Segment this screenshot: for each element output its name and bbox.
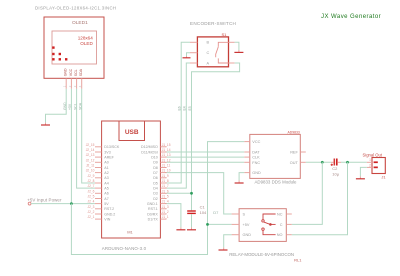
wire +5V input to Arduino 5V	[31, 203, 95, 205]
svg-text:J2_14: J2_14	[86, 148, 95, 152]
svg-text:D7: D7	[153, 171, 158, 175]
svg-text:D12/MISO: D12/MISO	[141, 145, 158, 149]
svg-text:VCC: VCC	[69, 68, 73, 76]
AD9833 right pin stubs REF OUT	[300, 152, 306, 162]
OLED pin numbers 1 2 3 4	[63, 85, 83, 87]
relay left pin stubs	[232, 214, 240, 235]
svg-text:128x64: 128x64	[78, 36, 94, 41]
svg-text:J2_2: J2_2	[87, 210, 94, 214]
svg-text:10µ: 10µ	[332, 171, 339, 176]
svg-text:D4: D4	[153, 186, 158, 190]
svg-text:D11/MOSI: D11/MOSI	[141, 150, 158, 154]
wire C2 to J1 pin1	[341, 161, 367, 163]
relay pin names	[243, 212, 252, 237]
svg-text:DISPLAY-OLED-128X64-I2C1.3INCH: DISPLAY-OLED-128X64-I2C1.3INCH	[35, 6, 116, 11]
Arduino left pin names	[104, 145, 120, 221]
capacitor C1	[187, 205, 207, 215]
svg-text:NC: NC	[277, 212, 283, 216]
ground symbol (J1 pin2)	[356, 176, 365, 178]
wire OLED GND to ground	[46, 89, 67, 123]
svg-text:USB: USB	[125, 129, 139, 136]
wire Arduino D10 to AD9833 CLK	[167, 156, 245, 158]
ground symbol (GND.1)	[176, 227, 185, 229]
relay module RL1 box	[239, 209, 286, 242]
svg-text:GND: GND	[243, 233, 252, 237]
svg-text:2: 2	[369, 163, 371, 167]
junction +5V relay	[206, 223, 209, 226]
svg-text:A5: A5	[104, 186, 108, 190]
svg-text:D3: D3	[153, 192, 158, 196]
svg-text:J2_8: J2_8	[87, 179, 94, 183]
svg-text:J1_11: J1_11	[162, 164, 171, 168]
AD9833 DDS module box	[250, 131, 300, 179]
svg-text:D0/RX: D0/RX	[147, 212, 158, 216]
svg-text:C: C	[207, 51, 210, 55]
svg-text:J2_3: J2_3	[87, 205, 94, 209]
svg-text:J1_1: J1_1	[162, 215, 169, 219]
relay contact graphic	[262, 214, 276, 235]
svg-text:A0: A0	[104, 161, 108, 165]
ground symbol (AD9833)	[235, 180, 244, 183]
wire +5V junction to relay +5V pin	[208, 223, 232, 225]
svg-text:E5: E5	[188, 106, 192, 110]
svg-text:D1/TX: D1/TX	[148, 217, 159, 221]
net labels GND +5V SCL SDA (rotated)	[63, 102, 83, 110]
svg-text:1: 1	[369, 158, 371, 162]
svg-text:J1_5: J1_5	[162, 195, 169, 199]
svg-text:C1: C1	[200, 205, 206, 210]
svg-text:A6: A6	[104, 192, 108, 196]
svg-text:J1_9: J1_9	[162, 174, 169, 178]
svg-text:A2: A2	[104, 171, 108, 175]
svg-text:J2_1: J2_1	[87, 215, 94, 219]
wire OLED SCL to Arduino A5	[77, 89, 95, 188]
encoder switch S1 box	[197, 32, 228, 67]
J1 pin numbers 1 2	[369, 158, 371, 167]
ground symbol (relay GND)	[219, 248, 228, 250]
wire S1 right-top pin to ground	[235, 42, 239, 50]
OLED pin stubs	[66, 78, 82, 89]
wire OLED VCC (+5V) down to 5V junction	[70, 89, 72, 204]
svg-text:RL1: RL1	[294, 257, 302, 262]
svg-text:J1_10: J1_10	[162, 169, 171, 173]
svg-text:J1_6: J1_6	[162, 189, 169, 193]
svg-text:J2_5: J2_5	[87, 195, 94, 199]
svg-text:ENCODER-SWITCH: ENCODER-SWITCH	[190, 21, 236, 26]
wire S1 A to Arduino D4	[167, 63, 191, 188]
svg-text:A1: A1	[104, 166, 108, 170]
ground symbol (C1)	[187, 227, 196, 229]
S1 pin stubs left	[190, 42, 197, 63]
svg-text:J2_10: J2_10	[86, 169, 95, 173]
svg-text:J2_13: J2_13	[86, 153, 95, 157]
svg-text:D2: D2	[153, 197, 158, 201]
ground symbol (S1 right)	[234, 50, 243, 52]
svg-text:Signal Out: Signal Out	[363, 152, 383, 157]
svg-text:J2_7: J2_7	[87, 184, 94, 188]
OLED pin names GND VCC SCL SDA (rotated)	[64, 68, 84, 76]
svg-text:OLED: OLED	[80, 41, 93, 46]
svg-text:AD9833: AD9833	[288, 131, 300, 135]
svg-text:GND.1: GND.1	[147, 202, 158, 206]
svg-text:J1_4: J1_4	[162, 200, 169, 204]
svg-text:D13/SCK: D13/SCK	[104, 145, 120, 149]
svg-text:AD9833 DDS Module: AD9833 DDS Module	[255, 180, 298, 185]
svg-text:GND.2: GND.2	[104, 212, 115, 216]
svg-text:J2_11: J2_11	[86, 164, 95, 168]
Arduino Nano M1 box	[102, 121, 161, 238]
S1 pin stubs right	[229, 42, 235, 63]
svg-text:FNC: FNC	[252, 161, 260, 165]
relay common filled dot	[269, 223, 272, 226]
svg-text:S1: S1	[222, 32, 228, 37]
svg-text:JX Wave Generator: JX Wave Generator	[321, 14, 381, 20]
svg-text:D7: D7	[213, 210, 219, 215]
svg-text:REF: REF	[290, 151, 298, 155]
net labels E6 E4 E5 (rotated)	[178, 106, 192, 110]
svg-text:A7: A7	[104, 197, 108, 201]
svg-text:104: 104	[200, 210, 207, 215]
svg-text:DAT: DAT	[252, 151, 260, 155]
svg-text:J1_2: J1_2	[162, 210, 169, 214]
Arduino right pin numbers J1_15..J1_1	[162, 143, 171, 219]
svg-text:SDA: SDA	[79, 68, 83, 76]
svg-text:J2_6: J2_6	[87, 189, 94, 193]
junction out / relay NO	[346, 161, 349, 164]
svg-text:J1_3: J1_3	[162, 205, 169, 209]
svg-text:C: C	[280, 223, 283, 227]
svg-text:J2_9: J2_9	[87, 174, 94, 178]
J1 pin stubs	[367, 162, 372, 167]
svg-text:RST.1: RST.1	[148, 207, 158, 211]
AD9833 pin names	[252, 140, 261, 175]
wire S1 B to Arduino D5	[167, 42, 191, 183]
wire AD9833 GND to ground	[239, 173, 244, 181]
wire S1 right-bottom pin to Arduino D3 and C1	[192, 63, 240, 210]
ground symbol (S1 C)	[183, 56, 191, 58]
wire OLED SDA to Arduino A4	[82, 89, 95, 183]
svg-text:J2_15: J2_15	[86, 143, 95, 147]
wire J1 pin2 to ground	[360, 167, 366, 176]
S1 switch graphic	[216, 42, 229, 63]
wire relay GND to ground	[224, 235, 232, 248]
wire C1 bottom to ground	[191, 214, 193, 227]
wire relay NO to output junction	[292, 162, 348, 234]
svg-text:D5: D5	[153, 181, 158, 185]
Arduino left pin stubs	[95, 147, 102, 219]
+5V input power open pin circle	[28, 202, 31, 205]
svg-text:SCL: SCL	[74, 69, 78, 76]
svg-text:+5V Input Power: +5V Input Power	[27, 198, 62, 203]
svg-text:GND: GND	[252, 171, 261, 175]
svg-text:A3: A3	[104, 176, 108, 180]
svg-text:GND: GND	[64, 68, 68, 76]
wire Arduino D11 to AD9833 DAT	[167, 151, 245, 153]
svg-text:+5V: +5V	[243, 223, 250, 227]
svg-text:J1_13: J1_13	[162, 153, 171, 157]
svg-text:D8: D8	[153, 166, 158, 170]
svg-text:RELAY-MODULE-5V-6PINOCON: RELAY-MODULE-5V-6PINOCON	[229, 252, 294, 257]
svg-text:D10: D10	[151, 155, 158, 159]
svg-text:J2_12: J2_12	[86, 158, 95, 162]
svg-text:E6: E6	[178, 106, 182, 110]
svg-text:5V: 5V	[104, 202, 109, 206]
svg-text:M1: M1	[127, 230, 133, 235]
svg-text:J2_4: J2_4	[87, 200, 94, 204]
svg-text:E4: E4	[183, 106, 187, 110]
svg-text:D9: D9	[153, 161, 158, 165]
wire Arduino D9 to AD9833 FNC	[167, 161, 245, 163]
wire S1 C to ground	[187, 53, 191, 56]
svg-text:RST.2: RST.2	[104, 207, 114, 211]
junction D3/C1	[190, 192, 193, 195]
svg-text:AREF: AREF	[104, 155, 114, 159]
svg-text:ARDUINO-NANO-3.0: ARDUINO-NANO-3.0	[102, 246, 147, 251]
svg-text:NO: NO	[277, 233, 283, 237]
svg-text:J1_15: J1_15	[162, 143, 171, 147]
relay right pin stubs	[286, 214, 292, 235]
svg-text:VCC: VCC	[252, 140, 260, 144]
OLED display OLED1 outer box	[44, 17, 104, 78]
junction +5V	[70, 202, 73, 205]
Arduino left pin numbers J2_15..J2_1	[86, 143, 95, 219]
svg-text:J1_8: J1_8	[162, 179, 169, 183]
svg-text:J1_12: J1_12	[162, 158, 171, 162]
svg-text:CLK: CLK	[252, 156, 260, 160]
svg-text:OLED1: OLED1	[72, 20, 88, 26]
junction OUT / relay C	[321, 161, 324, 164]
wire +5V rail down and right to AD9833 VCC and relay	[71, 142, 244, 255]
svg-text:J1_7: J1_7	[162, 184, 169, 188]
svg-text:D6: D6	[153, 176, 158, 180]
wire Arduino D3 to junction	[167, 192, 192, 194]
wire AD9833 OUT to C2 and J1	[306, 161, 331, 163]
OLED pixel squares icon	[52, 46, 67, 60]
connector J1 Signal Out	[363, 152, 387, 179]
Arduino right pin stubs	[160, 147, 166, 219]
svg-text:3V3: 3V3	[104, 150, 110, 154]
svg-text:OUT: OUT	[290, 161, 299, 165]
capacitor C2 (polarized)	[331, 159, 341, 177]
S1 pin names B C A	[207, 41, 210, 66]
wire Arduino GND.1 to ground	[167, 204, 181, 228]
OLED inner screen box	[52, 31, 97, 64]
AD9833 left pin stubs	[244, 142, 250, 173]
wire relay C to OUT junction	[292, 162, 323, 224]
svg-text:VIN: VIN	[104, 217, 110, 221]
ground symbol (OLED GND)	[41, 123, 50, 125]
wire Arduino D7 to relay S (net D7)	[167, 173, 232, 214]
svg-text:A4: A4	[104, 181, 108, 185]
Arduino right pin names	[141, 145, 158, 221]
